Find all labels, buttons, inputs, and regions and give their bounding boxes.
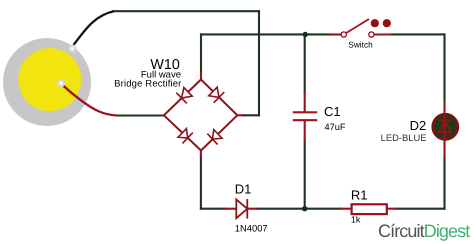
svg-text:Bridge Rectifier: Bridge Rectifier [114, 79, 181, 90]
svg-text:C1: C1 [324, 104, 341, 119]
svg-text:LED-BLUE: LED-BLUE [381, 132, 427, 143]
svg-text:1k: 1k [351, 215, 361, 225]
svg-text:R1: R1 [351, 188, 368, 203]
svg-text:D1: D1 [235, 182, 252, 197]
svg-text:CírcuitDigest: CírcuitDigest [378, 221, 470, 241]
svg-text:1N4007: 1N4007 [235, 223, 268, 234]
svg-text:47uF: 47uF [325, 122, 346, 132]
svg-text:D2: D2 [410, 118, 427, 133]
svg-text:Switch: Switch [348, 40, 373, 50]
